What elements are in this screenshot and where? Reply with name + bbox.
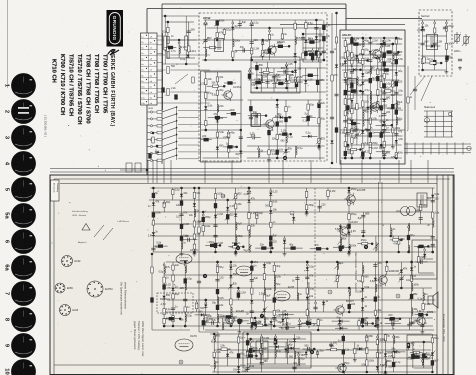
resistor R61 xyxy=(362,101,364,107)
branch wire xyxy=(348,188,350,252)
connector wire xyxy=(226,113,240,115)
coil L35 xyxy=(185,265,186,273)
connector wire xyxy=(415,314,427,316)
potentiometer arrow xyxy=(381,151,387,158)
terminal point xyxy=(306,264,308,266)
bus wire xyxy=(342,69,397,71)
junction xyxy=(156,145,159,148)
resistor R86 xyxy=(430,62,436,64)
resistor R158 xyxy=(413,351,419,353)
diode D79 xyxy=(410,268,413,271)
diode D50 xyxy=(234,214,237,217)
connector wire xyxy=(244,355,256,357)
capacitor C157 xyxy=(305,277,309,279)
bus wire xyxy=(342,79,399,81)
diode D68 xyxy=(263,309,266,312)
electrolytic capacitor C72 xyxy=(376,76,379,81)
junction xyxy=(369,37,372,40)
dashed separator xyxy=(314,188,316,300)
transistor T2 xyxy=(221,89,232,101)
junction xyxy=(204,59,207,62)
pot arrow xyxy=(175,74,188,84)
callout node 3 xyxy=(203,274,207,278)
legend triangle symbol xyxy=(82,224,90,231)
diode D87 xyxy=(305,352,308,355)
bus wire xyxy=(247,145,325,147)
connector wire xyxy=(376,124,392,126)
diode D28 xyxy=(361,130,364,133)
connector wire xyxy=(279,314,294,316)
resistor R150 xyxy=(366,360,368,366)
electrolytic capacitor C48 xyxy=(316,80,319,85)
junction xyxy=(348,246,351,249)
junction xyxy=(362,157,365,160)
electrolytic capacitor C19 xyxy=(278,45,283,48)
junction xyxy=(440,62,443,65)
FM IF sub-enclosure xyxy=(201,71,242,162)
branch wire xyxy=(260,68,262,92)
resistor R78 xyxy=(380,57,382,62)
resistor R49 xyxy=(344,111,346,116)
branch wire xyxy=(202,212,204,236)
terminal point xyxy=(261,336,263,338)
connector wire xyxy=(415,261,428,263)
coil L62 xyxy=(286,322,287,330)
switch contact S3 xyxy=(147,120,177,127)
junction xyxy=(347,144,350,147)
junction xyxy=(294,61,297,64)
junction xyxy=(214,251,217,254)
branch wire xyxy=(163,200,165,212)
coil L34 xyxy=(164,266,165,274)
junction xyxy=(184,325,187,328)
branch wire xyxy=(273,68,275,92)
resistor R54 xyxy=(351,93,353,99)
strip stub wire xyxy=(157,35,163,37)
ground xyxy=(379,145,383,149)
capacitor C23 xyxy=(239,137,243,139)
resistor R164 xyxy=(198,227,200,233)
capacitor C39 xyxy=(253,135,255,139)
junction xyxy=(234,251,237,254)
switch row wire 2 xyxy=(178,116,199,118)
capacitor C132 xyxy=(431,200,435,202)
terminal point xyxy=(269,30,271,32)
resistor R148 xyxy=(366,336,368,341)
electrolytic capacitor C75 xyxy=(383,83,386,88)
resistor R27 xyxy=(228,146,230,152)
resistor R20 xyxy=(205,79,207,85)
strip pin xyxy=(154,73,155,74)
terminal point xyxy=(270,190,272,192)
diode D35 xyxy=(382,43,385,46)
branch wire xyxy=(315,300,317,312)
wire to output stage xyxy=(199,331,218,333)
resistor R145 xyxy=(261,337,263,343)
coil L19 xyxy=(357,77,358,85)
diode D100 xyxy=(340,327,343,330)
capacitor C198 xyxy=(421,260,423,264)
electrolytic capacitor C11 xyxy=(268,49,271,54)
junction xyxy=(235,146,238,149)
coil L32 xyxy=(409,245,410,253)
control knob photo 3 xyxy=(11,125,36,150)
diode D32 xyxy=(383,121,386,124)
FM tuner dashed enclosure xyxy=(199,13,327,161)
electrolytic capacitor C159 xyxy=(348,304,351,309)
terminal point xyxy=(202,214,204,216)
branch wire xyxy=(302,34,304,62)
capacitor C107 xyxy=(458,59,462,61)
junction xyxy=(271,247,274,250)
branch wire xyxy=(362,262,364,326)
electrolytic capacitor C35 xyxy=(306,116,309,121)
resistor R41 xyxy=(317,52,319,58)
bus wire xyxy=(213,357,433,359)
diode D98 xyxy=(376,324,379,327)
junction xyxy=(351,37,354,40)
control knob photo 2 xyxy=(11,99,36,124)
diode D75 xyxy=(361,298,364,301)
junction xyxy=(306,261,309,264)
coil L59 xyxy=(422,357,423,365)
junction xyxy=(249,338,252,341)
electrolytic capacitor C114 xyxy=(180,236,183,241)
electrolytic capacitor C137 xyxy=(210,244,215,247)
electrolytic capacitor C70 xyxy=(369,132,372,137)
bus wire xyxy=(201,129,242,131)
electrolytic capacitor C60 xyxy=(344,90,347,95)
control knob photo 6a xyxy=(11,255,36,280)
junction xyxy=(361,325,364,328)
ground xyxy=(445,70,449,74)
diode D29 xyxy=(369,51,372,54)
resistor R36 xyxy=(275,76,277,82)
strip pin xyxy=(146,101,147,102)
coil L13 xyxy=(370,66,371,74)
transformer Tr3 xyxy=(348,79,357,92)
electrolytic capacitor C172 xyxy=(418,313,423,316)
electrolytic capacitor C33 xyxy=(276,150,279,155)
connector wire xyxy=(304,41,319,43)
potentiometer arrow xyxy=(233,193,239,200)
potentiometer arrow xyxy=(334,262,340,269)
junction xyxy=(305,211,308,214)
capacitor C134 xyxy=(431,244,435,246)
branch wire xyxy=(347,44,349,145)
potentiometer arrow xyxy=(214,20,220,27)
capacitor C155 xyxy=(272,317,276,319)
connector wire xyxy=(302,74,318,76)
terminal strip divider xyxy=(141,82,158,84)
transformer Tr2 xyxy=(252,114,261,127)
capacitor C56 xyxy=(330,117,334,119)
potentiometer arrow xyxy=(228,283,234,290)
terminal point xyxy=(282,314,284,316)
potentiometer arrow xyxy=(246,245,252,252)
connector wire xyxy=(381,90,396,92)
transistor T9 xyxy=(376,274,387,286)
potentiometer arrow xyxy=(211,335,217,342)
electrolytic capacitor C174 xyxy=(246,340,249,345)
coil L12 xyxy=(363,118,364,126)
strip pin xyxy=(146,68,147,69)
diode D64 xyxy=(229,275,232,278)
wire xyxy=(185,50,187,64)
junction xyxy=(251,261,254,264)
capacitor C110 xyxy=(151,248,155,250)
resistor R11 xyxy=(262,50,264,56)
resistor R17 xyxy=(167,27,169,32)
junction xyxy=(431,251,434,254)
junction xyxy=(361,325,364,328)
connector wire xyxy=(254,324,266,326)
coil L42 xyxy=(264,317,265,325)
diode D83 xyxy=(226,354,229,357)
branch wire xyxy=(294,334,296,372)
diode D22 xyxy=(344,79,347,82)
junction xyxy=(326,248,329,251)
resistor R81 xyxy=(392,128,394,133)
branch wire xyxy=(205,20,207,60)
diode D84 xyxy=(237,366,240,369)
branch wire xyxy=(317,318,319,330)
strip feed wire xyxy=(157,69,166,71)
tube socket view ECH81 xyxy=(87,281,103,297)
pcb boundary rail a xyxy=(378,182,380,375)
electrolytic capacitor C148 xyxy=(216,289,219,294)
terminal point xyxy=(348,290,350,292)
resistor R141 xyxy=(422,304,424,310)
electrolytic capacitor C145 xyxy=(184,278,187,283)
junction xyxy=(288,116,291,119)
branch wire xyxy=(421,358,423,366)
junction xyxy=(273,325,276,328)
junction xyxy=(198,187,201,190)
switch contact S8 xyxy=(147,155,177,162)
capacitor C79 xyxy=(382,154,386,156)
potentiometer arrow xyxy=(429,351,435,358)
branch wire xyxy=(411,262,413,326)
terminal point xyxy=(258,148,260,150)
bus wire xyxy=(152,235,432,237)
branch wire xyxy=(240,130,242,158)
capacitor C102 xyxy=(433,43,437,45)
junction xyxy=(230,325,233,328)
diode D69 xyxy=(281,319,284,322)
electrolytic capacitor C73 xyxy=(383,53,386,58)
branch wire xyxy=(205,300,207,326)
junction xyxy=(362,235,365,238)
diode D71 xyxy=(306,297,309,300)
diode D7 xyxy=(204,106,207,109)
electrolytic capacitor C86 xyxy=(353,42,358,45)
electrolytic capacitor C150 xyxy=(237,293,240,298)
branch wire xyxy=(222,318,224,330)
electrolytic capacitor C130 xyxy=(407,235,410,240)
resistor R149 xyxy=(366,348,368,354)
branch wire xyxy=(184,262,186,326)
junction xyxy=(399,317,402,320)
bus wire xyxy=(163,325,433,327)
junction xyxy=(335,12,338,15)
resistor R107 xyxy=(348,200,350,205)
electrolytic capacitor C109 xyxy=(152,212,155,217)
junction xyxy=(348,311,351,314)
resistor R91 xyxy=(193,192,195,198)
junction xyxy=(251,325,254,328)
control knob photo 5 xyxy=(11,177,36,202)
junction xyxy=(369,37,372,40)
branch wire xyxy=(196,300,198,312)
resistor R12 xyxy=(268,34,270,39)
connector wire xyxy=(235,49,253,51)
branch wire xyxy=(247,334,249,372)
electrolytic capacitor C185 xyxy=(248,354,253,357)
coil L20 xyxy=(393,53,394,61)
potentiometer arrow xyxy=(334,275,340,282)
capacitor C194 xyxy=(392,321,394,325)
supply bus xyxy=(280,24,405,26)
resistor R113 xyxy=(362,243,368,245)
ground xyxy=(193,252,197,256)
bus wire xyxy=(256,74,294,76)
branch wire xyxy=(298,352,300,364)
terminal strip divider xyxy=(141,87,158,89)
inter-block wire x362 xyxy=(361,160,363,183)
branch wire xyxy=(216,20,218,40)
junction xyxy=(421,69,424,72)
diode D23 xyxy=(350,100,353,103)
ground xyxy=(267,158,271,162)
strip stub wire xyxy=(157,88,163,90)
terminal point xyxy=(412,344,414,346)
branch wire xyxy=(367,95,369,145)
junction xyxy=(291,71,294,74)
diode D44 xyxy=(152,203,155,206)
branch wire xyxy=(178,40,180,58)
electrolytic capacitor C173 xyxy=(237,353,240,358)
electrolytic capacitor C41 xyxy=(255,65,258,70)
resistor R58 xyxy=(351,149,353,154)
diode D55 xyxy=(292,217,295,220)
resistor R128 xyxy=(251,288,253,294)
resistor R88 xyxy=(152,220,154,225)
branch wire xyxy=(393,334,395,372)
branch wire xyxy=(250,339,252,364)
wire xyxy=(164,50,166,64)
diode D86 xyxy=(293,338,296,341)
resistor R33 xyxy=(318,118,320,124)
connector wire xyxy=(201,139,212,141)
diode D14 xyxy=(308,135,311,138)
electrolytic capacitor C66 xyxy=(361,152,364,157)
capacitor C104 xyxy=(421,29,425,31)
branch wire xyxy=(412,342,414,368)
diode D1 xyxy=(186,55,189,58)
connector wire xyxy=(208,117,228,119)
branch wire xyxy=(262,40,264,60)
electrolytic capacitor C138 xyxy=(261,246,266,249)
coil L61 xyxy=(255,321,256,329)
junction xyxy=(380,43,383,46)
strip pin xyxy=(154,96,155,97)
pcb boundary rail b xyxy=(381,182,383,375)
strip stub wire xyxy=(157,53,163,55)
diode D10 xyxy=(239,151,242,154)
resistor R90 xyxy=(172,190,174,195)
resistor R154 xyxy=(392,351,394,357)
potentiometer arrow xyxy=(261,307,267,314)
branch wire xyxy=(369,38,371,158)
control knob photo 7 xyxy=(11,281,36,306)
potentiometer arrow xyxy=(260,50,266,57)
resistor R51 xyxy=(344,142,346,147)
electrolytic capacitor C31 xyxy=(267,130,270,135)
diode D103 xyxy=(423,254,426,257)
junction xyxy=(366,59,369,62)
resistor R126 xyxy=(230,299,232,305)
ground xyxy=(283,252,287,256)
feedback box xyxy=(412,240,437,279)
coil L46 xyxy=(337,262,338,270)
connector wire xyxy=(279,133,291,135)
branch wire xyxy=(351,38,353,158)
Grundig signature mark xyxy=(108,50,119,56)
capacitor C38 xyxy=(308,115,310,119)
strip pin xyxy=(154,51,155,52)
junction xyxy=(184,261,187,264)
diode D13 xyxy=(280,116,283,119)
branch wire xyxy=(285,342,287,358)
diode D19 xyxy=(330,141,333,144)
resistor R96 xyxy=(214,194,216,199)
resistor R101 xyxy=(256,213,258,219)
connector wire xyxy=(248,115,266,117)
resistor R132 xyxy=(273,265,275,271)
electrolytic capacitor C126 xyxy=(339,246,342,251)
diode D94 xyxy=(359,347,362,350)
terminal point xyxy=(163,202,165,204)
junction xyxy=(362,37,365,40)
legend note box xyxy=(51,180,60,201)
inter-block wire x171 xyxy=(170,160,172,183)
diode D61 xyxy=(171,288,174,291)
connector wire xyxy=(272,82,290,84)
connector wire xyxy=(207,85,225,87)
capacitor C64 xyxy=(350,71,354,73)
branch wire xyxy=(239,318,241,330)
resistor R45 xyxy=(344,41,346,47)
electrolytic capacitor C180 xyxy=(342,336,345,341)
connector wire xyxy=(301,116,315,118)
connector wire xyxy=(224,82,236,84)
resistor R92 xyxy=(193,221,195,227)
capacitor C44 xyxy=(284,70,286,74)
bus wire xyxy=(205,329,434,331)
junction xyxy=(391,124,394,127)
psu exit wire a xyxy=(410,76,425,95)
capacitor C117 xyxy=(213,225,217,227)
junction xyxy=(369,157,372,160)
branch wire xyxy=(188,22,190,58)
coil L17 xyxy=(396,101,397,109)
branch wire xyxy=(400,262,402,288)
branch wire xyxy=(356,44,358,145)
resistor R147 xyxy=(354,349,356,354)
electrolytic capacitor C99 xyxy=(387,50,392,53)
potentiometer arrow xyxy=(267,48,273,55)
